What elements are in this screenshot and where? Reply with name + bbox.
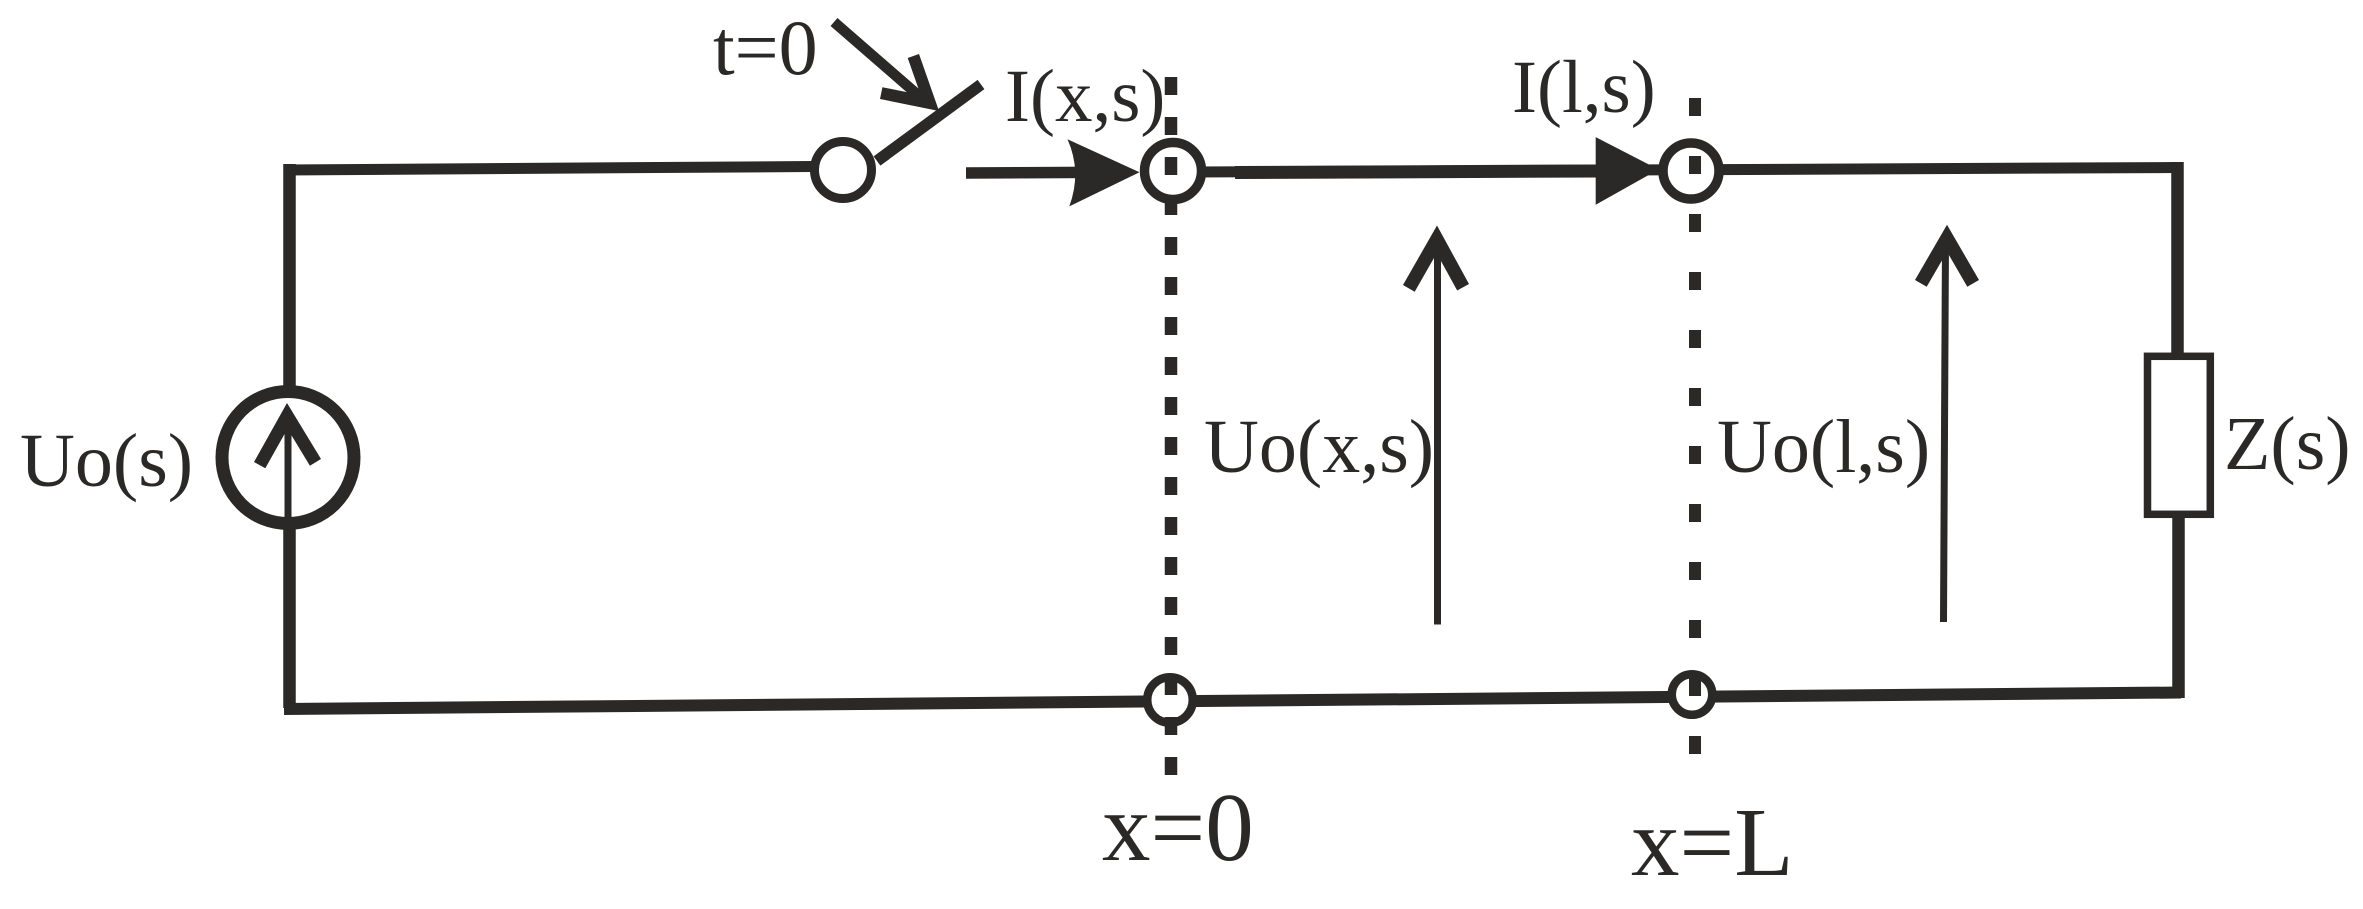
svg-text:Uo(s): Uo(s) <box>20 419 193 503</box>
svg-text:x=L: x=L <box>1631 789 1793 896</box>
svg-text:x=0: x=0 <box>1102 774 1254 881</box>
svg-text:t=0: t=0 <box>713 4 818 91</box>
svg-text:Uo(l,s): Uo(l,s) <box>1717 405 1930 489</box>
svg-text:Z(s): Z(s) <box>2224 402 2351 486</box>
svg-text:I(l,s): I(l,s) <box>1512 46 1656 129</box>
svg-text:I(x,s): I(x,s) <box>1005 55 1165 138</box>
svg-text:Uo(x,s): Uo(x,s) <box>1204 405 1434 489</box>
